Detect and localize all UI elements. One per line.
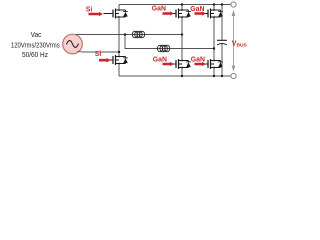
svg-text:50/60 Hz: 50/60 Hz — [22, 52, 48, 59]
svg-text:GaN: GaN — [152, 6, 166, 13]
svg-text:Vac: Vac — [31, 32, 42, 39]
svg-text:GaN: GaN — [190, 6, 204, 13]
svg-text:Si: Si — [86, 7, 93, 14]
svg-text:Si: Si — [95, 51, 102, 58]
svg-text:GaN: GaN — [191, 57, 205, 64]
svg-text:120Vrms/230Vrms: 120Vrms/230Vrms — [11, 42, 60, 49]
svg-text:GaN: GaN — [153, 57, 167, 64]
